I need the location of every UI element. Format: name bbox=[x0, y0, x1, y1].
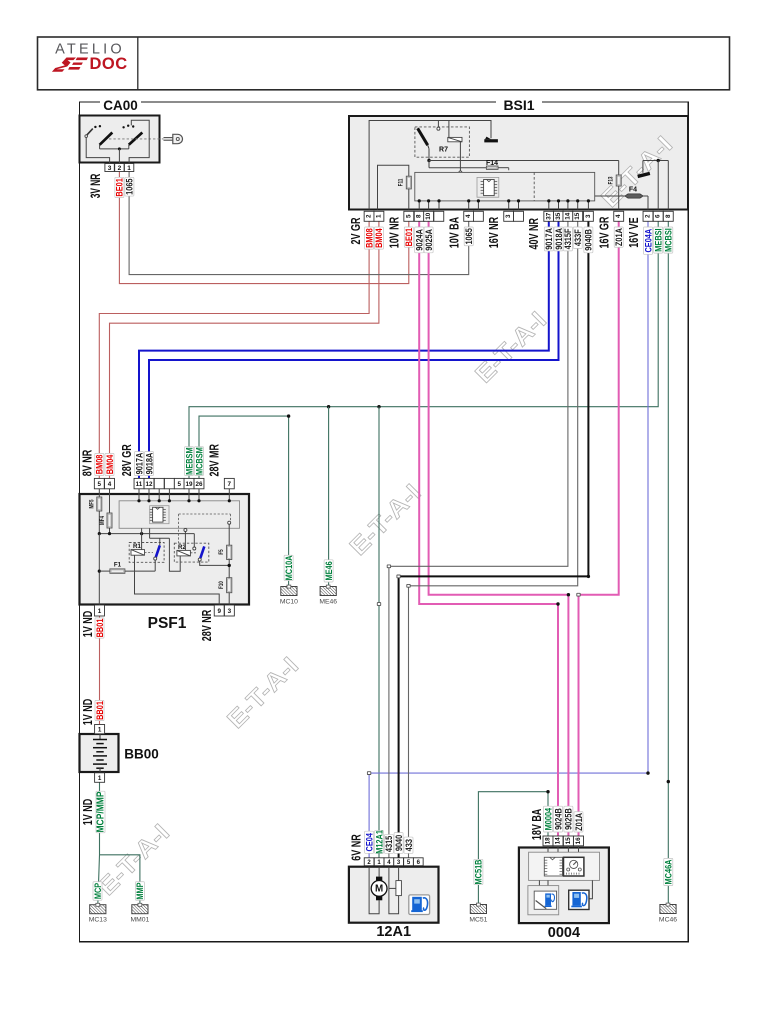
PSF1 R1 coil to pin9 wire bbox=[135, 555, 220, 616]
wire label BM04 at PSF1 bbox=[104, 453, 115, 475]
PSF1 top pin 5 bbox=[174, 478, 184, 488]
svg-text:14: 14 bbox=[555, 837, 562, 845]
component CA00 ignition switch body bbox=[80, 116, 160, 163]
svg-text:2: 2 bbox=[366, 214, 373, 218]
CA00 title bbox=[100, 98, 141, 113]
0004 IC bbox=[544, 857, 562, 876]
svg-text:16: 16 bbox=[575, 837, 582, 845]
svg-text:8: 8 bbox=[665, 214, 672, 218]
connector label 1V ND below BB00 bbox=[82, 799, 96, 826]
wire 433F / 433 (BSI1 pin15 to 12A1 pin5) bbox=[407, 221, 578, 858]
fuse F1 bbox=[99, 561, 155, 573]
wire CE04A / CE04 (BSI1 pin2 to 12A1 pin2) bbox=[367, 221, 649, 858]
BSI1 internal ground (right) bbox=[637, 159, 668, 210]
wire label 9040B bbox=[583, 227, 594, 253]
0004 low fuel warning icon bbox=[569, 880, 593, 909]
watermark E-T-A-I 3 bbox=[344, 478, 426, 560]
0004 pin 18 bbox=[543, 836, 553, 846]
CA00 pin 3 bbox=[105, 164, 114, 172]
svg-text:1065: 1065 bbox=[463, 228, 474, 245]
svg-text:40V NR: 40V NR bbox=[528, 218, 542, 250]
svg-text:MC10: MC10 bbox=[280, 598, 298, 605]
wire 9040B / 9040 (BSI1 pin3 to 12A1 pin3) bbox=[397, 221, 590, 858]
BSI1 feed wire from pin2 bbox=[369, 121, 491, 210]
svg-text:5: 5 bbox=[98, 481, 102, 488]
wire label 9040 at 12A1 bbox=[393, 833, 404, 854]
PSF1 bottom pin 9 bbox=[214, 605, 224, 616]
BSI1 pin 2 bbox=[364, 211, 374, 221]
wire label MCBSI bbox=[663, 227, 674, 253]
svg-text:1: 1 bbox=[375, 214, 382, 218]
svg-text:MCBSM: MCBSM bbox=[193, 447, 204, 475]
0004 internal unit box bbox=[529, 846, 600, 881]
wire label 9024A bbox=[414, 227, 425, 253]
watermark E-T-A-I 1 bbox=[595, 130, 677, 212]
connector label 1V ND bbox=[82, 611, 96, 638]
svg-text:1065: 1065 bbox=[124, 178, 135, 195]
12A1 pin 5 bbox=[404, 858, 414, 866]
junction ME46 tap bbox=[327, 405, 330, 408]
BSI1 bus from R7 bbox=[427, 159, 618, 162]
svg-text:9024B: 9024B bbox=[552, 808, 563, 830]
svg-text:1V ND: 1V ND bbox=[82, 799, 96, 826]
BSI1 pin 4 bbox=[614, 211, 624, 221]
connector label 10V BA bbox=[448, 217, 462, 249]
0004 fuel level sender icon bbox=[528, 880, 559, 914]
svg-text:5: 5 bbox=[405, 214, 412, 218]
fuse F4 bbox=[595, 186, 648, 209]
svg-text:MC46A: MC46A bbox=[663, 860, 674, 885]
wire MCP/MMP (BB00 to grounds MC13 and MM01) bbox=[98, 783, 140, 905]
svg-text:14: 14 bbox=[564, 212, 571, 220]
watermark E-T-A-I 2 bbox=[469, 306, 551, 388]
fuse F11 bbox=[378, 165, 412, 209]
wire label 4315 at 12A1 bbox=[383, 835, 394, 854]
svg-text:1: 1 bbox=[98, 726, 102, 733]
PSF1 link R1 switch to R2 coil bbox=[150, 528, 181, 571]
svg-text:MF4: MF4 bbox=[99, 516, 106, 525]
BSI1 pin 3 bbox=[583, 211, 593, 221]
svg-text:F4: F4 bbox=[629, 186, 637, 193]
svg-text:10V NR: 10V NR bbox=[388, 217, 402, 249]
svg-text:28V NR: 28V NR bbox=[201, 610, 215, 642]
connector label 6V NR bbox=[350, 834, 364, 861]
svg-text:3: 3 bbox=[228, 608, 232, 615]
svg-text:MC51B: MC51B bbox=[473, 860, 484, 885]
wire MEBSM / MEBSI (PSF1 pin19 to BSI1 pin6) bbox=[189, 221, 658, 478]
wire BM04 (BSI1 pin1 to PSF1 pin4) bbox=[110, 221, 379, 478]
BSI1 pin blank bbox=[473, 211, 483, 221]
BSI1 pin 2 bbox=[643, 211, 653, 221]
12A1 pin 2 bbox=[364, 858, 374, 866]
wire label 9025A bbox=[423, 227, 434, 253]
connector label 10V NR bbox=[388, 217, 402, 249]
wire label 433F bbox=[572, 227, 583, 248]
logo ATELIO DOC bbox=[52, 42, 128, 73]
12A1 fuel pump icon bbox=[409, 895, 430, 915]
svg-text:R7: R7 bbox=[439, 147, 448, 154]
BSI1 pin 15 bbox=[573, 211, 583, 221]
wire BE01 (CA00 pin2 to BSI1 pin5) bbox=[119, 172, 408, 284]
CA00 internal wiring bbox=[86, 120, 149, 163]
wire 4315F / 4315 (BSI1 pin14 to 12A1 pin4) bbox=[387, 221, 568, 858]
svg-text:3V NR: 3V NR bbox=[89, 174, 103, 199]
wire label MMP bbox=[134, 882, 145, 900]
svg-text:F1: F1 bbox=[114, 561, 122, 568]
wire ME46 (to ground ME46) bbox=[328, 407, 330, 587]
BB00 top pin 1 bbox=[95, 725, 105, 734]
ground MC51 bbox=[469, 903, 487, 923]
PSF1 top pin blank bbox=[164, 478, 174, 488]
wire BB01 (PSF1 pin1 to BB00) bbox=[99, 616, 101, 725]
svg-text:15: 15 bbox=[574, 212, 581, 220]
fuse F10 bbox=[218, 578, 231, 616]
fuse F14 bbox=[429, 160, 509, 201]
PSF1 top pin 11 bbox=[134, 478, 144, 488]
wire label MEBSM at PSF1 bbox=[183, 447, 194, 476]
0004 pin 14 bbox=[553, 836, 563, 846]
svg-text:35: 35 bbox=[555, 212, 562, 220]
connector label 16V NR bbox=[488, 217, 502, 249]
wire label 4315F bbox=[562, 227, 573, 251]
wire label MC10A bbox=[283, 555, 294, 580]
wire label 1065 bbox=[463, 227, 474, 246]
svg-text:Z01A: Z01A bbox=[573, 813, 584, 831]
connector label 18V BA bbox=[531, 809, 545, 841]
PSF1 bottom pin 1 bbox=[95, 605, 105, 616]
ground MC13 bbox=[89, 903, 107, 923]
wire label Z01A at 0004 bbox=[573, 812, 584, 832]
fuse MF4 bbox=[99, 489, 112, 534]
wire 9017A (BSI1 pin37 to PSF1 pin11) bbox=[139, 221, 549, 478]
component BSI1 body bbox=[349, 116, 688, 210]
wire label MCP bbox=[92, 882, 103, 900]
CA00 pin 1 bbox=[124, 164, 133, 172]
BSI1 microcontroller IC bbox=[477, 177, 499, 197]
PSF1 bottom pin 3 bbox=[224, 605, 234, 616]
0004 gauge icon bbox=[564, 857, 584, 876]
wire M0004 / MC51B (0004 pin18 to ground MC51) bbox=[478, 790, 549, 905]
svg-text:BB01: BB01 bbox=[94, 618, 105, 637]
12A1 pin 1 bbox=[374, 858, 384, 866]
connector label 28V GR bbox=[121, 444, 135, 476]
wire label M0004 at 0004 bbox=[542, 806, 553, 832]
component BB00 battery body bbox=[80, 734, 119, 772]
svg-text:MCBSI: MCBSI bbox=[663, 228, 674, 252]
svg-text:MM01: MM01 bbox=[130, 917, 149, 924]
watermark E-T-A-I 5 bbox=[92, 818, 174, 900]
wire Z01A (BSI1 pin4 to 0004 pin16) bbox=[577, 221, 619, 836]
connector label 8V NR bbox=[81, 450, 95, 477]
svg-text:16V VE: 16V VE bbox=[628, 217, 642, 247]
PSF1 top pin 19 bbox=[184, 478, 194, 488]
svg-text:Z01A: Z01A bbox=[613, 228, 624, 246]
wire label MC51B bbox=[473, 859, 484, 884]
wire label BM08 at PSF1 bbox=[94, 453, 105, 475]
0004 pin 16 bbox=[574, 836, 584, 846]
wire BM08 (BSI1 pin2 to PSF1 pin5) bbox=[99, 221, 369, 478]
wire label 9018A bbox=[553, 227, 564, 251]
CA00 pin 2 bbox=[115, 164, 124, 172]
component 12A1 fuel pump body bbox=[349, 867, 439, 923]
svg-text:MC10A: MC10A bbox=[283, 555, 294, 580]
svg-text:ME46: ME46 bbox=[319, 598, 337, 605]
svg-text:7: 7 bbox=[228, 481, 232, 488]
CA00 key symbol bbox=[164, 134, 183, 143]
svg-text:4: 4 bbox=[108, 481, 112, 488]
wire label 433 at 12A1 bbox=[403, 837, 414, 853]
svg-text:0004: 0004 bbox=[548, 925, 580, 941]
svg-text:16V NR: 16V NR bbox=[488, 217, 502, 249]
svg-text:10: 10 bbox=[425, 212, 432, 220]
svg-text:2V GR: 2V GR bbox=[350, 217, 364, 244]
svg-text:MC51: MC51 bbox=[469, 916, 487, 923]
svg-text:2: 2 bbox=[118, 165, 122, 172]
wire label MCBSM at PSF1 bbox=[193, 447, 204, 476]
watermark E-T-A-I 4 bbox=[221, 651, 303, 733]
label 3V NR bbox=[89, 174, 103, 199]
wire label 9024B at 0004 bbox=[552, 806, 563, 832]
svg-text:8: 8 bbox=[416, 214, 423, 218]
BSI1 internal ground (left) bbox=[484, 137, 498, 143]
BSI1 pin blank bbox=[434, 211, 444, 221]
connector label 28V NR bbox=[201, 610, 215, 642]
svg-text:3: 3 bbox=[505, 214, 512, 218]
relay R7 bbox=[415, 121, 470, 174]
label BE01 bbox=[114, 177, 125, 197]
component 0004 instrument panel body bbox=[519, 848, 609, 924]
BSI1 pin 35 bbox=[554, 211, 564, 221]
12A1 pin 4 bbox=[384, 858, 394, 866]
wire 1065 (CA00 pin1 to BSI1 pin4) bbox=[129, 172, 469, 275]
PSF1 top pin 26 bbox=[194, 478, 204, 488]
svg-text:BE01: BE01 bbox=[403, 228, 414, 247]
connector label 2V GR bbox=[350, 217, 364, 244]
BB00 bottom pin 1 bbox=[95, 773, 105, 783]
wire label Z01A bbox=[613, 227, 624, 247]
svg-text:F13: F13 bbox=[608, 176, 615, 184]
svg-text:433: 433 bbox=[403, 839, 414, 852]
connector label 16V GR bbox=[598, 216, 612, 248]
svg-text:MF5: MF5 bbox=[89, 500, 96, 509]
svg-text:11: 11 bbox=[136, 481, 143, 488]
label 1065 bbox=[124, 177, 135, 196]
svg-text:MCP/MMP: MCP/MMP bbox=[95, 791, 106, 832]
svg-text:18: 18 bbox=[545, 837, 552, 845]
svg-text:9: 9 bbox=[217, 608, 221, 615]
PSF1 top pin 5 bbox=[94, 478, 104, 488]
svg-text:ME46: ME46 bbox=[323, 561, 334, 581]
svg-text:9018A: 9018A bbox=[143, 453, 154, 475]
svg-text:M: M bbox=[375, 884, 383, 895]
CA00 ignition switch contacts bbox=[85, 125, 164, 145]
BB00 title bbox=[124, 747, 159, 762]
BSI1 pin 10 bbox=[424, 211, 434, 221]
PSF1 dashed control links bbox=[179, 514, 231, 543]
svg-text:9025A: 9025A bbox=[423, 229, 434, 251]
wire label MCP/MMP bbox=[95, 791, 106, 833]
svg-text:2: 2 bbox=[645, 214, 652, 218]
BSI1 pin blank bbox=[514, 211, 524, 221]
PSF1 top pin blank bbox=[154, 478, 164, 488]
wire 9018A (BSI1 pin35 to PSF1 pin12) bbox=[149, 221, 559, 478]
svg-text:BSI1: BSI1 bbox=[503, 97, 534, 113]
svg-text:4: 4 bbox=[615, 214, 622, 218]
wire MCBSI / MC46A (BSI1 pin8 to ground MC46) bbox=[667, 221, 670, 904]
wire label 9025B at 0004 bbox=[563, 806, 574, 832]
ground MM01 bbox=[130, 903, 149, 923]
svg-text:16V GR: 16V GR bbox=[598, 216, 612, 248]
svg-text:6: 6 bbox=[655, 214, 662, 218]
PSF1 title bbox=[148, 615, 187, 632]
svg-text:DOC: DOC bbox=[90, 55, 128, 73]
0004 title bbox=[548, 925, 580, 941]
fuse F13 bbox=[608, 161, 621, 210]
PSF1 top pin 7 bbox=[224, 478, 234, 488]
BSI1 pin 8 bbox=[663, 211, 673, 221]
connector label 16V VE bbox=[628, 217, 642, 247]
PSF1 top pin 12 bbox=[144, 478, 154, 488]
svg-text:9040B: 9040B bbox=[583, 229, 594, 251]
svg-text:PSF1: PSF1 bbox=[148, 615, 187, 632]
svg-text:12: 12 bbox=[145, 481, 153, 488]
svg-text:1: 1 bbox=[98, 608, 102, 615]
svg-text:BM04: BM04 bbox=[104, 454, 115, 474]
BSI1 pin 8 bbox=[414, 211, 424, 221]
wire label CE04 at 12A1 bbox=[364, 831, 375, 853]
svg-text:26: 26 bbox=[195, 481, 203, 488]
svg-text:433F: 433F bbox=[572, 229, 583, 246]
12A1 pin 3 bbox=[394, 858, 404, 866]
svg-text:5: 5 bbox=[178, 481, 182, 488]
ground MC10 bbox=[280, 585, 298, 605]
wire label 9017A bbox=[543, 227, 554, 251]
BSI1 pin 5 bbox=[404, 211, 414, 221]
svg-text:MC13: MC13 bbox=[89, 917, 107, 924]
12A1 title bbox=[376, 924, 411, 940]
svg-text:F14: F14 bbox=[486, 160, 498, 167]
svg-text:6V NR: 6V NR bbox=[350, 834, 364, 861]
BSI1 pin 14 bbox=[563, 211, 573, 221]
12A1 pin 6 bbox=[413, 858, 423, 866]
BSI1 pin 37 bbox=[544, 211, 554, 221]
BSI1 pin 4 bbox=[464, 211, 474, 221]
svg-text:MCP: MCP bbox=[92, 882, 103, 899]
wire label CE04A bbox=[642, 227, 653, 254]
0004 pin 15 bbox=[563, 836, 573, 846]
wire label BM04 bbox=[373, 227, 384, 249]
PSF1 internal control unit box bbox=[119, 501, 239, 529]
wire MCBSM / MC10A (PSF1 pin26 to ground MC10) bbox=[199, 414, 290, 586]
BB00 battery symbol bbox=[93, 734, 107, 772]
BSI1 pin 6 bbox=[653, 211, 663, 221]
svg-text:3: 3 bbox=[108, 165, 112, 172]
svg-text:BB00: BB00 bbox=[124, 747, 159, 762]
wire 9024A / 9024B (BSI1 pin8 to 0004 pin14) bbox=[419, 221, 560, 836]
svg-text:BB01: BB01 bbox=[94, 701, 105, 720]
diagram frame bbox=[80, 102, 689, 942]
connector label 1V ND above BB00 bbox=[82, 699, 96, 726]
svg-text:4: 4 bbox=[465, 214, 472, 218]
svg-text:15: 15 bbox=[565, 837, 572, 845]
relay R1 bbox=[129, 528, 164, 571]
svg-text:MMP: MMP bbox=[134, 882, 145, 900]
relay R2 bbox=[174, 529, 229, 566]
BSI1 pin stubs to control unit bbox=[418, 199, 590, 209]
fuse F5 bbox=[218, 524, 231, 578]
wire label 9018A at PSF1 bbox=[143, 452, 154, 476]
BSI1 pin 3 bbox=[504, 211, 514, 221]
svg-text:1: 1 bbox=[127, 165, 131, 172]
PSF1 pin stubs into control unit bbox=[137, 489, 231, 503]
BSI1 pin 1 bbox=[374, 211, 384, 221]
BSI1 title bbox=[496, 97, 542, 113]
wire label MC46A bbox=[663, 858, 674, 885]
PSF1 supply bus bbox=[98, 532, 195, 616]
component PSF1 body bbox=[80, 494, 250, 605]
svg-text:F10: F10 bbox=[218, 581, 225, 589]
svg-text:10V BA: 10V BA bbox=[448, 217, 462, 249]
PSF1 top pin 4 bbox=[105, 478, 115, 488]
svg-text:CA00: CA00 bbox=[103, 98, 138, 113]
ground MC46 bbox=[659, 903, 677, 923]
BSI1 control unit box bbox=[415, 172, 595, 201]
header box bbox=[38, 37, 730, 90]
wire label BM08 bbox=[364, 227, 375, 249]
svg-text:28V MR: 28V MR bbox=[208, 444, 222, 477]
connector label 28V MR bbox=[208, 444, 222, 477]
svg-text:37: 37 bbox=[545, 212, 552, 220]
svg-text:19: 19 bbox=[185, 481, 193, 488]
12A1 pump motor M bbox=[371, 877, 387, 901]
PSF1 IC bbox=[150, 506, 169, 524]
svg-text:BM04: BM04 bbox=[373, 228, 384, 248]
svg-text:F5: F5 bbox=[218, 549, 225, 554]
12A1 internal wiring bbox=[369, 867, 401, 914]
svg-text:MC46: MC46 bbox=[659, 916, 677, 923]
wire label BE01 bbox=[403, 227, 414, 247]
fuse MF5 bbox=[89, 489, 102, 534]
wire M12A1 (to 12A1 pin1) bbox=[377, 407, 380, 858]
junction M12A1 tap bbox=[377, 405, 380, 408]
wire label BB01 bbox=[94, 618, 105, 638]
svg-text:3: 3 bbox=[585, 214, 592, 218]
svg-text:12A1: 12A1 bbox=[376, 924, 411, 940]
wire label BB01 above BB00 bbox=[94, 700, 105, 720]
connector label 40V NR bbox=[528, 218, 542, 250]
wire label ME46 bbox=[323, 560, 334, 582]
ground ME46 bbox=[319, 585, 337, 605]
wire label 9017A at PSF1 bbox=[133, 452, 144, 476]
wire label MEBSI bbox=[653, 227, 664, 253]
svg-text:F11: F11 bbox=[398, 179, 405, 187]
wire 9025A / 9025B (BSI1 pin10 to 0004 pin15) bbox=[429, 221, 571, 836]
svg-text:1: 1 bbox=[98, 775, 102, 782]
wire label M12A1 at 12A1 bbox=[374, 830, 385, 854]
